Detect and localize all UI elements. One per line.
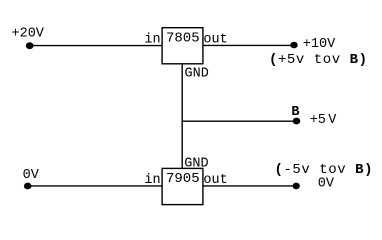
svg-text:(+5v tov B): (+5v tov B) bbox=[269, 52, 367, 68]
svg-text:0V: 0V bbox=[23, 168, 40, 183]
wire 7805 out to +10V node bbox=[203, 44, 294, 46]
regulator U2 7905 box bbox=[162, 168, 203, 204]
wire 7805 GND to 7905 GND vertical bbox=[181, 64, 183, 169]
svg-text:7805: 7805 bbox=[166, 30, 200, 46]
svg-text:0V: 0V bbox=[318, 176, 335, 191]
wire common rail to node B bbox=[182, 120, 296, 122]
svg-text:+20V: +20V bbox=[12, 27, 45, 42]
node +20V terminal dot bbox=[26, 42, 34, 49]
svg-text:+5: +5 bbox=[310, 113, 326, 128]
svg-text:7905: 7905 bbox=[166, 171, 200, 187]
wire 7905 out to -5V node bbox=[203, 185, 297, 187]
svg-text:V: V bbox=[328, 113, 337, 128]
wire 0V input to 7905 in bbox=[28, 185, 162, 187]
svg-text:+10V: +10V bbox=[303, 37, 336, 52]
regulator U1 7805 box bbox=[162, 28, 203, 64]
node B terminal dot bbox=[293, 118, 301, 125]
wire +20V input to 7805 in bbox=[30, 45, 162, 47]
node +10V terminal dot bbox=[290, 42, 297, 49]
svg-text:GND: GND bbox=[185, 66, 209, 81]
node -5V terminal dot bbox=[293, 183, 300, 190]
node 0V terminal dot left bbox=[24, 183, 32, 190]
svg-text:in: in bbox=[144, 33, 160, 48]
